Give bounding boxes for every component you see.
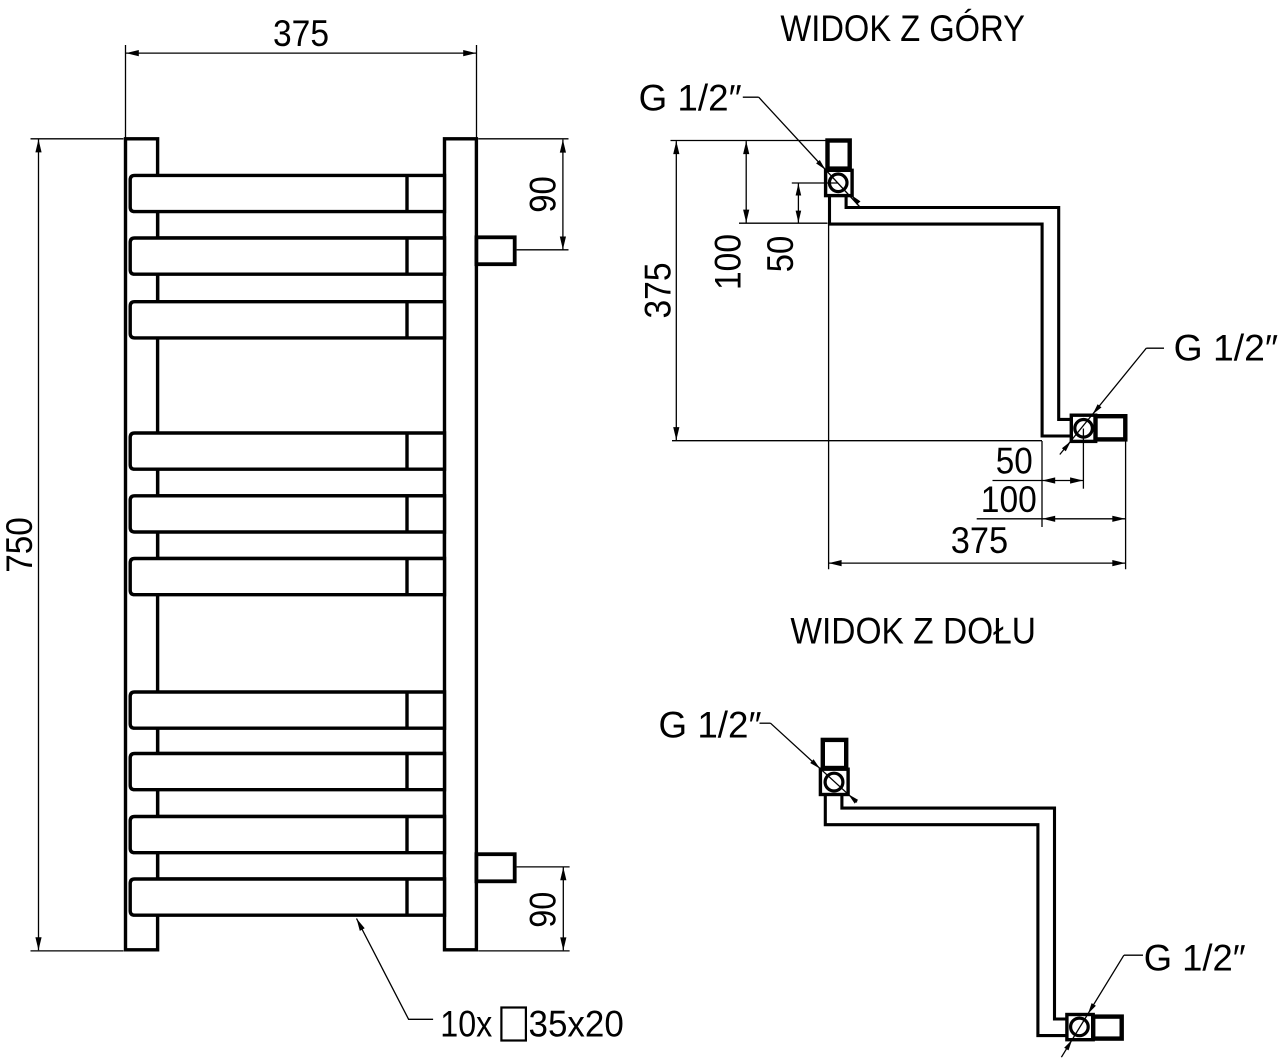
rung weld seam R2	[405, 238, 408, 274]
bottom view: bottom-right thread hole	[1071, 1018, 1089, 1036]
top view: top-left thread boss	[826, 170, 853, 195]
back rung B5	[158, 710, 445, 754]
label G 1/2 (bottom view, top-left)	[659, 705, 859, 804]
back rung B6	[158, 772, 445, 817]
rung weld seam R3	[405, 302, 408, 338]
top view: top-left thread hole	[829, 174, 847, 192]
dimension 750 (height, front view)	[0, 139, 124, 951]
rung weld seam R5	[405, 496, 408, 532]
extension lines (top view)	[828, 223, 830, 569]
bottom connection stub	[476, 854, 514, 881]
back rung B4	[158, 514, 445, 559]
top view: bottom-right thread hole	[1075, 420, 1093, 438]
bottom view: bottom-right thread boss	[1067, 1015, 1093, 1040]
svg-text:375: 375	[951, 520, 1008, 561]
front rung R10	[130, 879, 444, 915]
front rung R9	[130, 817, 444, 853]
top view: bottom-right valve nipple	[1096, 416, 1126, 439]
dimension 50 (top view, left)	[739, 183, 838, 272]
svg-text:G 1/2″: G 1/2″	[639, 78, 742, 119]
svg-text:375: 375	[273, 13, 329, 54]
dimension 375 (width, front view)	[126, 13, 477, 138]
svg-text:50: 50	[996, 441, 1033, 482]
svg-text:WIDOK Z GÓRY: WIDOK Z GÓRY	[780, 8, 1025, 49]
svg-text:750: 750	[0, 517, 40, 573]
svg-text:100: 100	[707, 234, 748, 290]
svg-text:375: 375	[638, 263, 679, 319]
leader and label 10x square-profile 35x20	[357, 919, 624, 1045]
svg-text:50: 50	[760, 236, 801, 273]
rung weld seam R1	[405, 175, 408, 211]
top view: top-left valve nipple	[828, 141, 850, 169]
bottom view: top-left valve nipple	[823, 740, 846, 768]
dimension 375 (top view, bottom)	[829, 520, 1126, 566]
rung weld seam R6	[405, 559, 408, 595]
label G 1/2 (top view, top-left)	[639, 78, 861, 208]
back rung B2	[158, 256, 445, 302]
back rung B7	[158, 835, 445, 880]
front rung R1	[130, 175, 444, 211]
rung weld seam R10	[405, 879, 408, 915]
rung weld seam R7	[405, 692, 408, 728]
svg-text:10x: 10x	[440, 1004, 492, 1045]
rung weld seam R8	[405, 754, 408, 790]
bottom view: top-left thread hole	[825, 773, 843, 791]
svg-text:100: 100	[981, 479, 1037, 520]
left collector rail	[126, 139, 158, 950]
front rung R2	[130, 238, 444, 274]
rung weld seam R9	[405, 817, 408, 853]
front rung R8	[130, 754, 444, 790]
svg-text:35x20: 35x20	[529, 1004, 624, 1045]
svg-text:90: 90	[523, 176, 564, 213]
bottom view pipe (z-shape)	[834, 793, 1068, 1027]
top view pipe (z-shape)	[838, 194, 1073, 428]
top connection stub	[476, 237, 514, 264]
svg-text:WIDOK Z DOŁU: WIDOK Z DOŁU	[790, 611, 1036, 652]
front rung R5	[130, 496, 444, 532]
rung weld seam R4	[405, 433, 408, 469]
front rung R3	[130, 302, 444, 338]
bottom view: bottom-right valve nipple	[1093, 1017, 1122, 1039]
svg-text:90: 90	[523, 892, 564, 928]
back rung B1	[158, 193, 445, 238]
bottom view: top-left thread boss	[820, 769, 848, 794]
svg-text:G 1/2″: G 1/2″	[1144, 938, 1246, 979]
front rung R6	[130, 559, 444, 595]
dimension 375 (top view, left)	[638, 141, 827, 441]
dimension 100 (top view, bottom)	[977, 479, 1126, 522]
svg-text:G 1/2″: G 1/2″	[1174, 328, 1279, 369]
svg-text:G 1/2″: G 1/2″	[659, 705, 762, 746]
dimension 50 (top view, bottom)	[993, 441, 1084, 484]
top view: bottom-right thread boss	[1071, 415, 1095, 441]
dimension 100 (top view, left)	[707, 141, 749, 290]
dimension 90 (bottom stub offset)	[478, 867, 569, 951]
label G 1/2 (top view, bottom-right)	[1060, 328, 1278, 455]
back rung B3	[158, 451, 445, 496]
right collector rail	[445, 139, 477, 950]
label G 1/2 (bottom view, bottom-right)	[1061, 938, 1245, 1058]
front rung R4	[130, 433, 444, 469]
front rung R7	[130, 692, 444, 728]
dimension 90 (top stub offset)	[478, 139, 568, 250]
